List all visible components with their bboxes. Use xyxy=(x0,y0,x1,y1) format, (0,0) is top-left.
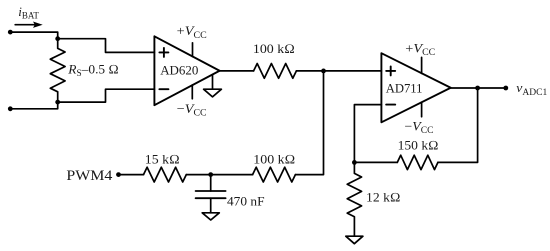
svg-text:100 kΩ: 100 kΩ xyxy=(253,152,295,167)
svg-text:−VCC: −VCC xyxy=(405,119,434,136)
svg-text:100 kΩ: 100 kΩ xyxy=(253,41,295,56)
wire node D down to R5 xyxy=(438,88,478,162)
capacitor C1 470nF xyxy=(196,175,226,213)
wire node B to AD620 -in xyxy=(58,89,155,102)
svg-text:vADC1: vADC1 xyxy=(516,80,547,97)
wire U1 out to R2 xyxy=(220,70,254,72)
wire U2 out xyxy=(451,87,506,89)
node E (junction dot) xyxy=(352,160,357,165)
svg-text:PWM4: PWM4 xyxy=(66,168,113,184)
current arrow i_BAT xyxy=(15,22,43,28)
resistor R4 100k xyxy=(253,167,296,182)
svg-text:470 nF: 470 nF xyxy=(227,193,265,208)
ground below C1 xyxy=(202,213,219,220)
svg-text:RS–0.5 Ω: RS–0.5 Ω xyxy=(67,61,119,78)
resistor R5 150k xyxy=(397,155,438,169)
wire node F to R4 xyxy=(211,174,253,176)
wire top terminal to node A xyxy=(10,32,57,39)
svg-text:AD711: AD711 xyxy=(386,80,423,95)
pin -Vcc U1 xyxy=(191,85,193,99)
wire R3 to node F xyxy=(186,174,210,176)
resistor R6 12k xyxy=(347,162,361,236)
svg-text:15 kΩ: 15 kΩ xyxy=(145,151,180,166)
terminal v_ADC1 xyxy=(503,86,508,91)
wire R2 to node C xyxy=(296,70,323,72)
svg-text:iBAT: iBAT xyxy=(18,4,39,21)
ground below R6 xyxy=(346,236,363,244)
op-amp U2 AD711 xyxy=(381,53,450,122)
node C (junction dot) xyxy=(321,69,326,74)
node D (junction dot) xyxy=(475,86,480,91)
wire PWM4 to R3 xyxy=(119,174,144,176)
svg-text:+VCC: +VCC xyxy=(405,40,435,57)
svg-text:AD620: AD620 xyxy=(160,63,198,78)
wire node E to AD711 -in xyxy=(354,105,381,163)
op-amp U1 AD620 xyxy=(154,36,219,105)
pin +Vcc U1 xyxy=(192,43,194,57)
wire node C to AD711 +in xyxy=(324,70,382,72)
terminal bottom-left xyxy=(8,106,13,111)
svg-text:+VCC: +VCC xyxy=(177,23,207,40)
wire node A to AD620 +in xyxy=(58,39,155,53)
node A (junction dot) xyxy=(55,36,60,41)
terminal PWM4 xyxy=(116,172,121,177)
pin +Vcc U2 xyxy=(421,57,423,73)
wire node C down to R4 row xyxy=(295,71,323,175)
resistor R3 15k xyxy=(144,167,187,182)
resistor R2 100k xyxy=(254,64,297,79)
node B (junction dot) xyxy=(55,100,60,105)
ground at U1 ref pin xyxy=(204,75,222,97)
svg-text:−VCC: −VCC xyxy=(177,101,207,118)
svg-text:12 kΩ: 12 kΩ xyxy=(366,189,401,204)
wire bottom terminal to node B xyxy=(10,102,57,109)
wire R5 to node E xyxy=(354,161,397,163)
terminal top-left xyxy=(8,30,13,35)
resistor R_S xyxy=(50,39,65,102)
node F (junction dot) xyxy=(208,172,213,177)
pin -Vcc U2 xyxy=(421,102,423,117)
svg-text:150 kΩ: 150 kΩ xyxy=(398,137,439,152)
